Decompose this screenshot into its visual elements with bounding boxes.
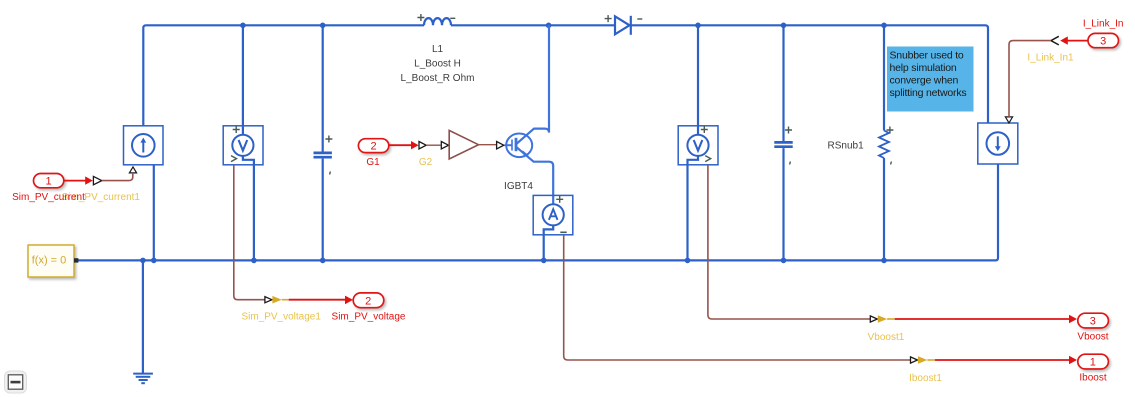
svg-text:2: 2: [371, 141, 377, 153]
svg-text:L_Boost_R Ohm: L_Boost_R Ohm: [401, 73, 475, 84]
svg-text:3: 3: [1090, 316, 1096, 328]
wire A bottom to bus: [544, 225, 554, 260]
junction dots top bus: [240, 23, 887, 29]
svg-text:converge when: converge when: [890, 75, 959, 87]
wire V1 signal down (dark red): [234, 165, 265, 300]
wire V2 signal down (dark red): [708, 165, 870, 319]
svg-text:G2: G2: [419, 157, 433, 168]
input port 2 G1: [358, 139, 388, 153]
svg-text:RSnub1: RSnub1: [828, 140, 865, 151]
output port 3 Vboost: [870, 316, 877, 322]
inductor L1: [424, 18, 451, 25]
junction dots bottom bus: [140, 258, 887, 264]
transistor IGBT4: [505, 25, 554, 204]
svg-text:G1: G1: [366, 157, 380, 168]
svg-text:splitting networks: splitting networks: [890, 87, 967, 99]
wire A signal down (dark red): [564, 235, 910, 360]
svg-text:Snubber used to: Snubber used to: [890, 49, 964, 61]
wire port3 red arrow (points left): [1060, 36, 1088, 44]
capacitor C2: [774, 25, 792, 260]
annotation note box: [887, 47, 974, 112]
svg-text:I_Link_In1: I_Link_In1: [1027, 53, 1074, 64]
wire port1 red arrow: [64, 176, 93, 184]
wire V1 bottom to bus: [243, 156, 254, 261]
svg-text:IGBT4: IGBT4: [504, 181, 533, 192]
svg-text:f(x) = 0: f(x) = 0: [32, 255, 67, 267]
current source block (right, controlled): [978, 123, 1018, 164]
svg-text:1: 1: [1090, 357, 1096, 369]
resistor RSnub1: [879, 25, 889, 260]
wire V2 bottom to bus: [688, 156, 699, 261]
wire V2 top: [697, 25, 699, 134]
svg-text:I_Link_In: I_Link_In: [1083, 19, 1124, 30]
svg-text:Sim_PV_voltage1: Sim_PV_voltage1: [241, 311, 321, 322]
current sensor A: [533, 195, 573, 234]
port marker triangle IGBT gate: [497, 142, 504, 149]
svg-text:L_Boost H: L_Boost H: [414, 59, 461, 70]
ground: [133, 260, 153, 383]
svg-text:Sim_PV_current: Sim_PV_current: [12, 192, 85, 203]
wire: signal to current source (dark red): [102, 173, 133, 181]
wire top bus: [143, 25, 988, 126]
solver block f(x)=0: [28, 245, 78, 277]
svg-text:3: 3: [1100, 36, 1106, 48]
diode D: [615, 16, 631, 35]
svg-text:1: 1: [46, 176, 52, 188]
signal input triangle of right source: [1005, 117, 1012, 123]
wire V1 top: [242, 25, 244, 134]
svg-text:Iboost: Iboost: [1079, 373, 1106, 384]
voltage sensor V2: [678, 126, 718, 165]
input port 3 I_Link_In: [1088, 33, 1119, 47]
wire: signal to right source (dark red): [1009, 41, 1051, 117]
signal input triangle of current source: [129, 167, 136, 173]
port marker triangle: [93, 176, 101, 184]
svg-text:Vboost: Vboost: [1077, 332, 1108, 343]
voltage sensor V1: [223, 126, 263, 165]
output port 1 Iboost: [911, 357, 918, 363]
wire G1 red arrow: [389, 141, 419, 149]
svg-text:help simulation: help simulation: [890, 62, 957, 74]
wire bottom bus: [78, 164, 998, 260]
capacitor C1: [314, 25, 332, 260]
wire: current source bottom to bus: [153, 165, 155, 261]
wire gain to IGBT gate (dark red): [479, 144, 497, 146]
svg-text:Iboost1: Iboost1: [909, 373, 942, 384]
gain buffer triangle: [449, 130, 478, 159]
minimize button: [5, 371, 27, 393]
current source block (left, controlled): [124, 126, 164, 165]
svg-text:2: 2: [365, 295, 371, 307]
output port 2 Sim_PV_voltage: [265, 297, 272, 303]
svg-text:Sim_PV_voltage: Sim_PV_voltage: [332, 311, 406, 322]
svg-text:L1: L1: [432, 44, 444, 55]
svg-text:Vboost1: Vboost1: [868, 332, 905, 343]
input port 1 Sim_PV_current: [34, 174, 64, 188]
port marker chevron: [1051, 36, 1059, 45]
port marker triangle gain in: [441, 142, 448, 149]
wire G2 to gain (dark red): [426, 144, 441, 146]
port marker triangle G2: [419, 142, 426, 149]
